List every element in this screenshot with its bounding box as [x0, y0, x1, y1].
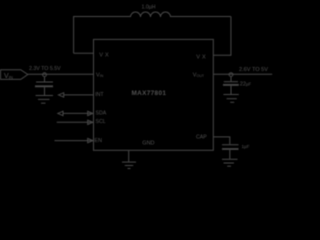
node SCL right arrowhead — [88, 120, 93, 124]
wire GND pin stub — [128, 150, 130, 162]
wire left rail to LX1 — [74, 17, 131, 54]
svg-text:EN: EN — [94, 138, 102, 144]
svg-text:MAX77801: MAX77801 — [132, 90, 167, 97]
wire SDA line — [63, 112, 93, 114]
wire inductor to right rail — [171, 16, 231, 18]
wire right rail to LX2 stub — [213, 17, 231, 56]
svg-text:22µF: 22µF — [240, 82, 252, 88]
IC U1 MAX77801 body — [94, 39, 214, 150]
capacitor C1 input — [44, 77, 46, 82]
svg-text:1µF: 1µF — [242, 144, 250, 149]
wire LX1 stub — [74, 52, 94, 54]
wire CAP pin stub — [213, 137, 230, 144]
svg-text:VIN: VIN — [96, 72, 104, 78]
wire input VIN to IC IN pin — [28, 73, 94, 75]
svg-text:1.0µH: 1.0µH — [142, 5, 156, 11]
svg-text:SDA: SDA — [96, 111, 107, 117]
svg-text:2.6V TO 5V: 2.6V TO 5V — [239, 67, 268, 73]
ground input — [36, 95, 54, 97]
svg-text:CAP: CAP — [196, 135, 207, 141]
ground ref — [222, 158, 238, 160]
node EN right arrowhead — [88, 138, 93, 142]
svg-text:VOUT: VOUT — [193, 73, 205, 79]
inductor L1 — [131, 12, 171, 17]
svg-text:SCL: SCL — [96, 119, 106, 125]
node input junction — [43, 73, 47, 77]
ground GND pin — [122, 161, 136, 163]
capacitor C3 ref — [222, 144, 239, 146]
node INT arrowhead — [59, 93, 64, 97]
svg-text:VX: VX — [196, 54, 207, 60]
wire INT output line — [64, 94, 94, 96]
svg-text:2.3V TO 5.5V: 2.3V TO 5.5V — [29, 66, 61, 72]
ground output — [223, 94, 238, 96]
wire OUT to right edge — [213, 73, 272, 75]
node VIN input tag — [1, 70, 28, 80]
svg-text:INT: INT — [95, 92, 104, 98]
node output junction — [229, 73, 233, 77]
node SDA left arrowhead — [58, 111, 63, 115]
svg-text:VIN: VIN — [4, 73, 13, 80]
wire EN line — [55, 140, 93, 142]
wire SCL line — [57, 121, 93, 123]
svg-text:VX: VX — [99, 53, 110, 59]
capacitor C2 output — [230, 77, 232, 82]
node SDA right arrowhead — [88, 111, 93, 115]
svg-text:GND: GND — [142, 140, 154, 146]
